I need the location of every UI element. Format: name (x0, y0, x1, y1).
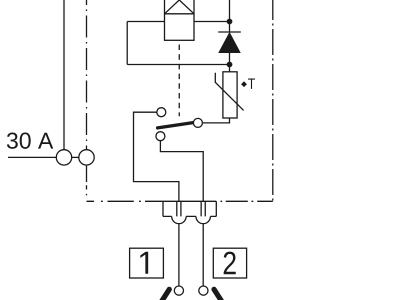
wire supply vertical to diode node (229, 0, 231, 32)
ring terminal 1 (174, 286, 183, 295)
relay coil X diagonal 2 (165, 0, 195, 14)
node junction bottom (227, 62, 233, 68)
wire coil left (127, 21, 164, 23)
pin 1 blades (177, 201, 181, 216)
relay coil X diagonal 1 (165, 0, 195, 14)
thermistor diagonal stroke (215, 73, 243, 111)
wire coil loop horizontal to diode anode (127, 64, 229, 66)
diode V1 triangle (219, 33, 239, 52)
harness arrow right (214, 289, 222, 300)
wire diode anode down (229, 52, 231, 72)
switch terminal right (193, 118, 202, 127)
wire from lower-left switch terminal to pin 2 (160, 141, 203, 202)
wire 30A feed (8, 156, 56, 158)
wire socket 2 down (202, 224, 204, 286)
connector block bottom edge segments (163, 215, 216, 217)
label 1 (140, 252, 148, 274)
enclosure boundary bottom edge right of connector (dash-dot) (221, 200, 273, 202)
enclosure boundary left edge lower (dash-dot) (86, 166, 88, 196)
switch terminal lower-left (156, 132, 165, 141)
label T (248, 78, 255, 88)
terminal label box 2 (213, 248, 246, 278)
terminal circle B (connector on enclosure wall) (79, 150, 94, 165)
relay coil K1 box (top cut off) (165, 0, 195, 40)
pin 2 blades (201, 201, 205, 216)
socket contact 2 (semicircle) (196, 216, 211, 223)
mechanical link (dashed) coil to switch (178, 40, 180, 116)
switch blade (158, 123, 194, 128)
harness arrow left (162, 289, 170, 300)
wire coil loop vertical (126, 22, 128, 65)
connector block outline (163, 201, 216, 216)
node junction top (227, 19, 233, 25)
enclosure boundary bottom edge left of connector (dash-dot) (87, 200, 164, 202)
socket contact 1 (semicircle) (172, 216, 187, 223)
enclosure boundary left edge upper (dash-dot) (86, 0, 88, 150)
label 30 A (7, 133, 53, 149)
wire socket 1 down (178, 224, 180, 286)
wire thermistor bottom (203, 118, 230, 123)
diode V1 cathode bar (218, 31, 241, 33)
label 2 (224, 252, 236, 275)
wire supply vertical left (63, 0, 65, 150)
switch terminal upper-left (157, 108, 166, 117)
terminal circle A (connector outside) (56, 150, 71, 165)
terminal label box 1 (130, 248, 164, 278)
wire from upper-left switch terminal to pin 1 (134, 112, 179, 201)
label diamond (241, 81, 247, 87)
ring terminal 2 (199, 286, 208, 295)
thermistor R1 body (223, 72, 237, 118)
wire link between connector halves (72, 156, 79, 158)
relay coil divider line (165, 13, 195, 15)
enclosure boundary right edge (dash-dot) (272, 0, 274, 201)
wire coil right to diode cathode (194, 21, 230, 23)
